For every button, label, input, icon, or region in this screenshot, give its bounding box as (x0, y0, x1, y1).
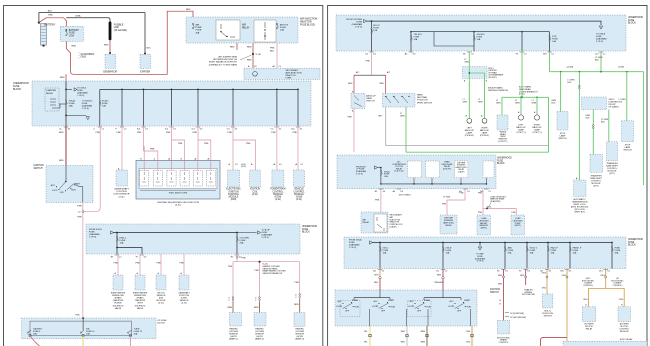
svg-text:HEATED: HEATED (255, 328, 264, 331)
svg-text:D2 (W/O BRODIE): D2 (W/O BRODIE) (510, 317, 526, 319)
svg-text:AIR SOL: AIR SOL (280, 24, 289, 27)
svg-text:BLOCK: BLOCK (13, 88, 22, 91)
svg-text:ACC: ACC (374, 300, 379, 303)
svg-text:(4P1): (4P1) (593, 186, 598, 188)
svg-text:BATTERY: BATTERY (45, 24, 56, 27)
svg-text:1200B: 1200B (618, 66, 624, 68)
svg-text:PNK: PNK (228, 266, 233, 268)
svg-text:RED: RED (230, 47, 235, 49)
svg-text:ORG: ORG (466, 331, 471, 333)
svg-text:OFF: OFF (60, 192, 65, 194)
svg-text:(4.3L): (4.3L) (275, 199, 281, 201)
svg-text:(W/P1): (W/P1) (481, 228, 488, 230)
svg-text:30A: 30A (530, 252, 534, 255)
svg-text:BLK: BLK (595, 60, 600, 62)
svg-text:ACC: ACC (51, 184, 56, 187)
svg-text:(4P1): (4P1) (609, 173, 614, 175)
svg-text:RELAY: RELAY (46, 92, 54, 95)
svg-text:20A: 20A (551, 252, 555, 255)
svg-text:CRANKSHAFT: CRANKSHAFT (114, 188, 129, 191)
svg-text:WHT: WHT (401, 331, 406, 333)
svg-text:PARK: PARK (417, 94, 423, 97)
svg-text:1 OF 6): 1 OF 6) (89, 237, 96, 239)
svg-text:(NOT USED): (NOT USED) (399, 194, 411, 196)
svg-text:PNK: PNK (157, 263, 162, 265)
svg-text:60A: 60A (615, 252, 619, 255)
svg-text:ORG: ORG (374, 274, 379, 276)
svg-text:ORG: ORG (619, 299, 624, 301)
svg-text:PNK: PNK (478, 192, 483, 194)
svg-text:NEUTRAL: NEUTRAL (417, 96, 428, 99)
svg-text:20A: 20A (240, 242, 244, 245)
svg-text:S 135: S 135 (256, 54, 262, 56)
svg-text:1 OF 6): 1 OF 6) (349, 247, 356, 249)
svg-text:RED: RED (60, 77, 65, 79)
svg-text:SWITCH: SWITCH (490, 292, 499, 294)
svg-text:LINK: LINK (114, 27, 120, 29)
svg-text:BLK: BLK (48, 10, 53, 12)
svg-text:SHIFT A/T): SHIFT A/T) (574, 211, 585, 214)
svg-text:RED: RED (104, 44, 109, 46)
svg-text:RELAY: RELAY (445, 224, 452, 227)
svg-text:PNK: PNK (178, 143, 183, 145)
svg-text:PNK: PNK (96, 132, 101, 134)
svg-text:RED: RED (59, 160, 64, 162)
svg-text:START: START (464, 299, 471, 302)
svg-text:BRN: BRN (294, 304, 299, 306)
svg-text:(EVAP): (EVAP) (137, 297, 144, 300)
svg-text:I/P FUSE: I/P FUSE (158, 320, 168, 322)
svg-text:PNK: PNK (270, 48, 275, 50)
svg-text:CONTROL: CONTROL (499, 342, 510, 344)
svg-text:PNK: PNK (478, 212, 483, 214)
svg-text:AIR JUMPER WIRE: AIR JUMPER WIRE (218, 56, 237, 59)
svg-text:BODY RELAY: BODY RELAY (620, 338, 633, 341)
svg-text:BRN: BRN (421, 331, 426, 333)
svg-text:20A: 20A (134, 332, 138, 335)
svg-text:CENTRAL SEQUENTIAL FUEL INJECT: CENTRAL SEQUENTIAL FUEL INJECTION (157, 201, 199, 204)
svg-text:BLK: BLK (619, 101, 623, 103)
svg-text:PNK: PNK (77, 217, 82, 219)
svg-text:(4.3L): (4.3L) (252, 194, 258, 196)
svg-text:(ICM): (ICM) (231, 199, 237, 201)
svg-text:(UTILITY): (UTILITY) (498, 141, 507, 143)
svg-text:10A: 10A (33, 332, 37, 335)
svg-text:BLOCK: BLOCK (302, 232, 310, 234)
svg-text:FUSE: FUSE (628, 242, 635, 244)
svg-text:SWITCH: SWITCH (366, 101, 375, 103)
svg-text:HEATED: HEATED (229, 328, 238, 331)
svg-text:CANISTER: CANISTER (113, 299, 124, 302)
svg-text:(4.3L): (4.3L) (296, 199, 302, 201)
svg-text:PNK: PNK (166, 132, 171, 134)
svg-text:60A: 60A (508, 252, 512, 255)
svg-text:IGNITION: IGNITION (490, 289, 500, 291)
svg-text:BRN: BRN (254, 307, 259, 309)
svg-text:ORG: ORG (542, 287, 547, 289)
svg-text:RED: RED (247, 47, 252, 49)
svg-text:ORG: ORG (583, 299, 588, 301)
svg-text:STARTER: STARTER (140, 70, 151, 73)
svg-text:UNDERHOOD: UNDERHOOD (628, 239, 643, 241)
svg-text:UNDERHOOD: UNDERHOOD (497, 158, 512, 160)
svg-text:15A: 15A (477, 38, 481, 41)
svg-text:PNK: PNK (193, 132, 198, 134)
svg-text:SWITCH: SWITCH (558, 138, 567, 140)
svg-text:2 OF 6): 2 OF 6) (596, 41, 603, 43)
svg-text:PNK: PNK (137, 132, 142, 134)
svg-text:CAMSHAFT: CAMSHAFT (178, 291, 190, 294)
svg-text:2 OF 6): 2 OF 6) (356, 174, 363, 176)
svg-text:WHT: WHT (401, 341, 406, 343)
svg-text:POWERTRAIN: POWERTRAIN (270, 188, 286, 191)
svg-text:STARTER: STARTER (46, 89, 56, 92)
svg-text:GRN: GRN (478, 101, 483, 103)
svg-text:RED: RED (186, 9, 191, 11)
svg-text:PNK: PNK (77, 206, 82, 208)
svg-text:PROVISIONS: PROVISIONS (522, 294, 535, 296)
svg-text:RELAY: RELAY (242, 26, 250, 29)
svg-text:UNDERHOOD: UNDERHOOD (628, 17, 643, 19)
svg-text:DAY/NIGHT MIRROR): DAY/NIGHT MIRROR) (488, 89, 508, 92)
svg-text:BLK: BLK (270, 51, 275, 53)
svg-text:RUN: RUN (427, 307, 432, 309)
svg-text:SWITCH: SWITCH (34, 168, 43, 170)
svg-text:EVAPORATIVE: EVAPORATIVE (111, 291, 126, 294)
svg-text:BRN: BRN (421, 341, 426, 343)
svg-text:(CALIF): (CALIF) (458, 170, 465, 173)
svg-text:(UTILITY): (UTILITY) (516, 132, 525, 134)
svg-text:40A: 40A (69, 105, 73, 108)
svg-text:RIGHT RADIATOR SUPPORT: RIGHT RADIATOR SUPPORT (209, 61, 238, 64)
svg-text:(BANK 2): (BANK 2) (255, 338, 264, 341)
svg-text:AIR: AIR (196, 24, 200, 27)
svg-text:RED: RED (247, 60, 252, 62)
svg-text:UNDERHOOD: UNDERHOOD (302, 226, 317, 228)
svg-text:FUEL INJECTORS: FUEL INJECTORS (169, 193, 188, 195)
svg-text:LAMP: LAMP (366, 97, 372, 100)
svg-text:FUSE: FUSE (628, 20, 635, 22)
svg-text:PNK: PNK (271, 132, 276, 134)
svg-text:CALIFORNIA: CALIFORNIA (81, 53, 95, 56)
svg-text:ACC: ACC (450, 300, 455, 303)
svg-text:GRN: GRN (515, 103, 520, 105)
svg-text:QUARTER): QUARTER) (490, 200, 501, 203)
svg-text:1 OF 6): 1 OF 6) (355, 26, 362, 28)
svg-text:SENSOR BREAKOUT: SENSOR BREAKOUT (263, 272, 284, 275)
svg-text:20A: 20A (573, 252, 577, 255)
svg-text:BLOCK: BLOCK (628, 23, 636, 25)
svg-text:2 OF 6): 2 OF 6) (477, 261, 484, 263)
svg-text:RUN: RUN (391, 307, 396, 309)
svg-text:RED: RED (59, 132, 64, 134)
svg-text:(PICKUP): (PICKUP) (488, 77, 497, 79)
svg-text:PNK: PNK (255, 270, 260, 272)
svg-text:10A: 10A (552, 40, 556, 43)
svg-text:(PICKUP): (PICKUP) (480, 135, 489, 137)
svg-text:BRN: BRN (228, 307, 233, 309)
svg-text:PNK: PNK (366, 61, 371, 63)
svg-text:PNK: PNK (204, 143, 209, 145)
svg-text:RED: RED (498, 275, 503, 277)
svg-text:GRN: GRN (464, 62, 469, 64)
svg-text:PNK: PNK (136, 263, 141, 265)
svg-text:PNK: PNK (228, 132, 233, 134)
svg-text:& BREAKOUT TO ENG HARN: & BREAKOUT TO ENG HARN (209, 63, 238, 66)
svg-text:FUSE BLOCK: FUSE BLOCK (300, 23, 316, 26)
svg-text:10A: 10A (414, 38, 418, 41)
svg-text:RED: RED (72, 45, 77, 47)
svg-text:START: START (424, 299, 431, 302)
svg-text:RUN: RUN (355, 307, 360, 309)
svg-text:PNK: PNK (295, 282, 300, 284)
svg-text:IGNITION: IGNITION (34, 165, 45, 167)
svg-text:(4.3L/5.0L): (4.3L/5.0L) (394, 171, 404, 173)
svg-text:PNK: PNK (348, 117, 353, 119)
svg-text:RUN: RUN (71, 190, 76, 192)
svg-text:BLK: BLK (147, 48, 152, 50)
svg-text:RED: RED (348, 83, 353, 85)
svg-text:BLK: BLK (552, 102, 556, 104)
svg-text:1 OF 6): 1 OF 6) (82, 108, 89, 110)
svg-text:(UTILITY): (UTILITY) (532, 132, 541, 134)
svg-text:(PNP) SWITCH: (PNP) SWITCH (417, 102, 433, 104)
svg-text:PNK: PNK (180, 263, 185, 265)
svg-text:GRN: GRN (400, 116, 405, 118)
svg-text:(BANK 1): (BANK 1) (229, 338, 238, 341)
svg-text:PNK: PNK (293, 132, 298, 134)
svg-text:S471: S471 (487, 206, 491, 208)
svg-text:d: d (93, 128, 94, 130)
svg-text:ACC: ACC (410, 300, 415, 303)
svg-text:D/G: D/G (599, 271, 603, 273)
svg-text:ORG: ORG (542, 272, 547, 274)
svg-text:BLK: BLK (568, 82, 572, 84)
svg-text:ACC: ACC (338, 300, 343, 303)
svg-text:PNK: PNK (460, 192, 465, 194)
svg-text:START: START (352, 299, 359, 302)
svg-text:GRN: GRN (496, 103, 501, 105)
svg-text:RED/WHT: RED/WHT (435, 282, 445, 284)
svg-text:PNK: PNK (242, 258, 247, 260)
svg-text:VALVE: VALVE (137, 307, 144, 310)
svg-text:(PICKUP): (PICKUP) (465, 135, 474, 137)
svg-text:FUSE: FUSE (497, 160, 504, 162)
svg-text:RED: RED (498, 283, 503, 285)
svg-text:RUN: RUN (467, 307, 472, 309)
svg-text:ORG: ORG (562, 275, 567, 277)
svg-text:RED: RED (374, 282, 379, 284)
svg-text:RELAY: RELAY (586, 327, 593, 330)
svg-text:MODULE: MODULE (620, 331, 629, 333)
svg-text:(4.3L): (4.3L) (158, 303, 164, 305)
svg-text:PNK: PNK (150, 149, 155, 151)
svg-text:OF DASH): OF DASH) (609, 106, 619, 109)
svg-text:(UTIL/P1): (UTIL/P1) (443, 168, 452, 170)
svg-text:(10 GAUGE): (10 GAUGE) (114, 29, 127, 32)
svg-text:B/G: B/G (560, 271, 564, 273)
svg-text:10A: 10A (383, 252, 387, 255)
svg-text:RELAY: RELAY (363, 221, 370, 224)
svg-text:(W/P1): (W/P1) (515, 225, 522, 227)
svg-text:(BANK 3): (BANK 3) (295, 338, 304, 341)
svg-text:AIR: AIR (242, 24, 246, 27)
svg-text:(4.3L): (4.3L) (241, 166, 246, 168)
svg-text:BLOCK: BLOCK (158, 323, 166, 325)
svg-text:RED: RED (520, 275, 525, 277)
svg-text:HEATED: HEATED (296, 328, 305, 331)
svg-text:PNK: PNK (75, 314, 80, 316)
svg-text:10A: 10A (120, 242, 124, 245)
svg-text:ONLY: ONLY (81, 57, 88, 59)
svg-text:GRY: GRY (378, 116, 383, 118)
svg-text:20A: 20A (280, 29, 284, 32)
svg-text:(4.3L): (4.3L) (175, 205, 181, 207)
svg-text:BLK: BLK (586, 117, 590, 119)
svg-text:+1200A: +1200A (566, 65, 574, 68)
svg-text:10A: 10A (446, 252, 450, 255)
svg-text:CONTROL): CONTROL) (612, 285, 622, 287)
svg-text:PNK: PNK (375, 200, 380, 202)
svg-text:GRN: GRN (532, 103, 537, 105)
svg-text:(4.3L): (4.3L) (119, 196, 125, 198)
svg-text:BLOCK: BLOCK (628, 245, 636, 247)
svg-text:(EVAP): (EVAP) (115, 297, 122, 300)
svg-text:LOCK: LOCK (52, 190, 58, 192)
svg-text:ORG: ORG (466, 341, 471, 343)
svg-text:SWITCH: SWITCH (623, 150, 632, 152)
svg-text:FUSE: FUSE (69, 33, 76, 35)
svg-text:PNK: PNK (246, 143, 251, 145)
svg-text:BLK: BLK (601, 121, 605, 123)
svg-text:LT GRN: LT GRN (443, 197, 451, 199)
svg-text:PNK: PNK (116, 132, 121, 134)
svg-text:CONTROL): CONTROL) (583, 285, 593, 287)
svg-text:VALVE: VALVE (115, 307, 122, 310)
svg-text:RED: RED (380, 83, 385, 85)
svg-text:175A: 175A (69, 34, 75, 37)
svg-text:PNK: PNK (512, 212, 517, 214)
svg-text:BATTERY: BATTERY (69, 29, 80, 32)
svg-text:PNK: PNK (114, 263, 119, 265)
svg-text:(CALIF): (CALIF) (390, 226, 397, 229)
svg-text:PUMP: PUMP (286, 77, 293, 79)
svg-text:ORG: ORG (600, 275, 605, 277)
svg-text:10A: 10A (86, 332, 90, 335)
svg-text:PNK: PNK (442, 204, 447, 206)
svg-text:CANISTER: CANISTER (135, 299, 146, 302)
svg-text:RED: RED (437, 274, 442, 276)
svg-text:(4.3L): (4.3L) (181, 303, 187, 305)
svg-text:BLOCK: BLOCK (497, 163, 505, 165)
svg-text:10GA: 10GA (75, 15, 81, 18)
svg-text:10A: 10A (102, 105, 106, 108)
svg-text:GRN: GRN (463, 101, 468, 103)
svg-text:D2 (W BRODIE): D2 (W BRODIE) (510, 313, 524, 315)
svg-text:FUSE: FUSE (302, 229, 309, 231)
svg-text:2 OF 6): 2 OF 6) (77, 95, 84, 97)
svg-text:SWITCH: SWITCH (544, 315, 553, 317)
svg-text:2 OF 6): 2 OF 6) (262, 237, 269, 239)
svg-text:EVAPORATIVE: EVAPORATIVE (133, 291, 148, 294)
svg-text:START: START (388, 299, 395, 302)
svg-text:10A: 10A (373, 29, 377, 32)
svg-text:BACK-UP: BACK-UP (366, 95, 376, 98)
svg-text:RED: RED (48, 15, 53, 17)
svg-text:30A: 30A (196, 31, 200, 34)
svg-text:GENERATOR: GENERATOR (103, 70, 117, 73)
svg-text:FUSIBLE: FUSIBLE (114, 24, 124, 26)
